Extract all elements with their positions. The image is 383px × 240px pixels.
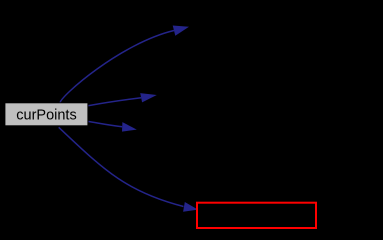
node curPoints xyxy=(5,103,88,126)
arrowhead middle xyxy=(140,93,157,102)
node red (highlighted) xyxy=(197,203,316,228)
edge curPoints -> top node xyxy=(60,31,174,104)
arrowhead lower-middle xyxy=(122,122,137,132)
edge curPoints -> red node xyxy=(59,127,184,206)
arrowhead red node xyxy=(183,202,198,212)
svg-text:curPoints: curPoints xyxy=(16,108,76,124)
arrowhead top xyxy=(173,26,189,36)
edge curPoints -> lower-middle node xyxy=(89,122,123,127)
edge curPoints -> middle node xyxy=(88,98,141,106)
